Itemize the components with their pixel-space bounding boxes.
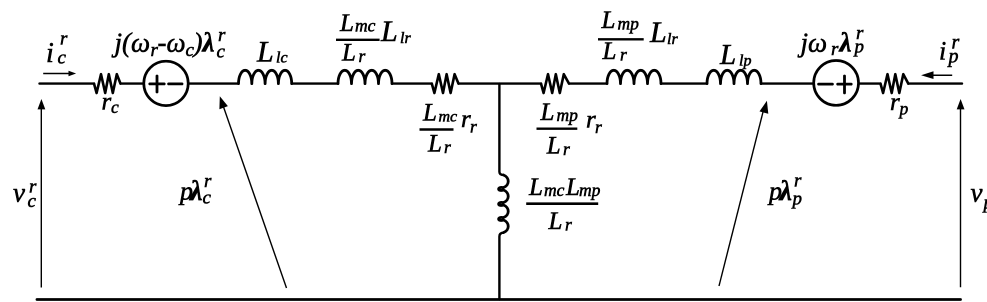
- resistor Lmc/Lr r_r: [432, 74, 459, 93]
- wire: [121, 82, 144, 84]
- svg-text:lp: lp: [739, 53, 751, 70]
- svg-text:lc: lc: [276, 50, 288, 67]
- svg-text:c: c: [217, 42, 226, 63]
- svg-text:r: r: [563, 139, 570, 159]
- wire: [569, 82, 607, 84]
- label j(wr-wc)lambda_c^r: [112, 25, 227, 63]
- svg-text:L: L: [565, 174, 580, 201]
- source U1 plus sign: [150, 76, 164, 92]
- arrow p lambda_c flux: [219, 96, 286, 288]
- wire: [761, 82, 814, 84]
- label fraction Lmp/Lr r_r (below right): [537, 99, 603, 160]
- svg-text:mc: mc: [439, 109, 458, 126]
- label L_lc: [256, 36, 288, 69]
- label v_p: [971, 178, 987, 214]
- svg-text:p: p: [947, 46, 959, 68]
- label r_p: [890, 89, 909, 119]
- svg-text:λ: λ: [779, 176, 792, 207]
- svg-text:L: L: [602, 38, 617, 65]
- wire: [292, 82, 338, 84]
- svg-text:r: r: [620, 45, 627, 65]
- wire bottom bus: [37, 298, 961, 301]
- resistor r_p: [881, 74, 909, 93]
- arrow p lambda_p flux: [719, 101, 768, 286]
- source U1 j(wr-wc)lambda circle: [144, 61, 188, 105]
- wire: [392, 82, 432, 84]
- svg-text:-ω: -ω: [158, 28, 186, 58]
- svg-text:mp: mp: [557, 105, 579, 125]
- svg-text:L: L: [256, 36, 274, 69]
- svg-text:L: L: [422, 100, 437, 127]
- svg-text:r: r: [60, 29, 68, 50]
- inductor Lmc/Lr Llr: [338, 70, 392, 83]
- svg-text:λ: λ: [839, 28, 852, 58]
- svg-text:r: r: [595, 117, 602, 137]
- label i_p^r: [939, 32, 960, 68]
- svg-text:p: p: [791, 189, 803, 210]
- wire: [908, 82, 962, 84]
- wire center vertical bottom: [499, 233, 503, 300]
- resistor Lmp/Lr r_r: [541, 74, 569, 93]
- wire: [189, 82, 239, 84]
- svg-text:λ: λ: [202, 28, 215, 58]
- wire: [40, 82, 95, 84]
- svg-text:c: c: [111, 97, 119, 117]
- svg-text:r: r: [890, 89, 900, 116]
- arrow v_c voltage: [38, 99, 46, 288]
- svg-text:r: r: [102, 89, 112, 116]
- inductor Lmp/Lr Llr: [607, 70, 661, 83]
- label p lambda_p^r: [767, 171, 802, 210]
- wire: [859, 82, 881, 84]
- source U2 plus sign: [838, 76, 852, 93]
- svg-text:mp: mp: [618, 14, 640, 34]
- svg-text:c: c: [58, 48, 67, 69]
- label r_c: [102, 89, 120, 118]
- svg-text:r: r: [831, 39, 839, 60]
- svg-text:L: L: [380, 15, 398, 48]
- label fraction Lmc/Lr (above): [336, 10, 380, 67]
- wire center vertical top: [499, 84, 503, 175]
- svg-text:i: i: [939, 37, 946, 66]
- wire: [661, 82, 707, 84]
- svg-text:L: L: [719, 39, 736, 71]
- arrow i_p current: [921, 71, 952, 79]
- svg-text:jω: jω: [798, 28, 828, 58]
- svg-text:L: L: [546, 133, 561, 160]
- label L_lp: [719, 39, 751, 71]
- svg-text:L: L: [528, 174, 543, 201]
- label fraction LmcLmp/Lr (center): [526, 174, 600, 235]
- label i_c^r: [46, 29, 68, 70]
- svg-text:lr: lr: [400, 30, 411, 47]
- svg-text:mp: mp: [579, 180, 601, 200]
- svg-text:r: r: [359, 46, 366, 66]
- label v_c^r: [13, 176, 37, 212]
- svg-text:mc: mc: [355, 16, 376, 36]
- resistor r_c: [94, 74, 121, 93]
- svg-text:λ: λ: [189, 176, 202, 207]
- wire: [459, 82, 542, 84]
- inductor Lmc Lmp / Lr vertical coil: [499, 175, 509, 233]
- svg-text:mc: mc: [544, 180, 565, 200]
- svg-text:L: L: [339, 10, 354, 37]
- svg-text:p: p: [898, 99, 909, 119]
- svg-text:c: c: [203, 188, 212, 209]
- svg-text:r: r: [470, 117, 477, 137]
- source U2 minus sign: [819, 83, 833, 86]
- svg-text:L: L: [548, 208, 563, 235]
- arrow v_p voltage: [957, 99, 965, 287]
- svg-text:L: L: [601, 7, 616, 34]
- svg-text:p: p: [853, 37, 865, 58]
- svg-text:lr: lr: [667, 31, 678, 48]
- source U1 minus sign: [169, 83, 182, 86]
- arrow i_c current: [43, 71, 76, 76]
- svg-text:c: c: [28, 191, 37, 212]
- svg-text:L: L: [427, 131, 442, 158]
- svg-text:L: L: [341, 40, 356, 67]
- label fraction Lmp/Lr (above right): [598, 7, 644, 65]
- label jwr lambda_p^r: [798, 23, 865, 60]
- label fraction Lmc/Lr r_r (below): [420, 100, 478, 158]
- svg-text:L: L: [649, 16, 667, 49]
- svg-text:i: i: [46, 38, 54, 69]
- label p lambda_c^r: [178, 171, 212, 209]
- svg-text:r: r: [565, 215, 572, 235]
- inductor L_lc: [239, 70, 292, 83]
- label L_lr (right): [649, 16, 678, 49]
- svg-text:v: v: [13, 178, 25, 208]
- svg-text:r: r: [444, 137, 451, 157]
- label L_lr (left): [380, 15, 411, 48]
- svg-text:v: v: [971, 178, 983, 208]
- svg-text:): ): [192, 28, 203, 58]
- svg-text:L: L: [540, 99, 555, 126]
- source U2 jwr lambda circle: [814, 61, 859, 106]
- inductor L_lp: [707, 70, 761, 83]
- svg-text:j(ω: j(ω: [112, 28, 151, 58]
